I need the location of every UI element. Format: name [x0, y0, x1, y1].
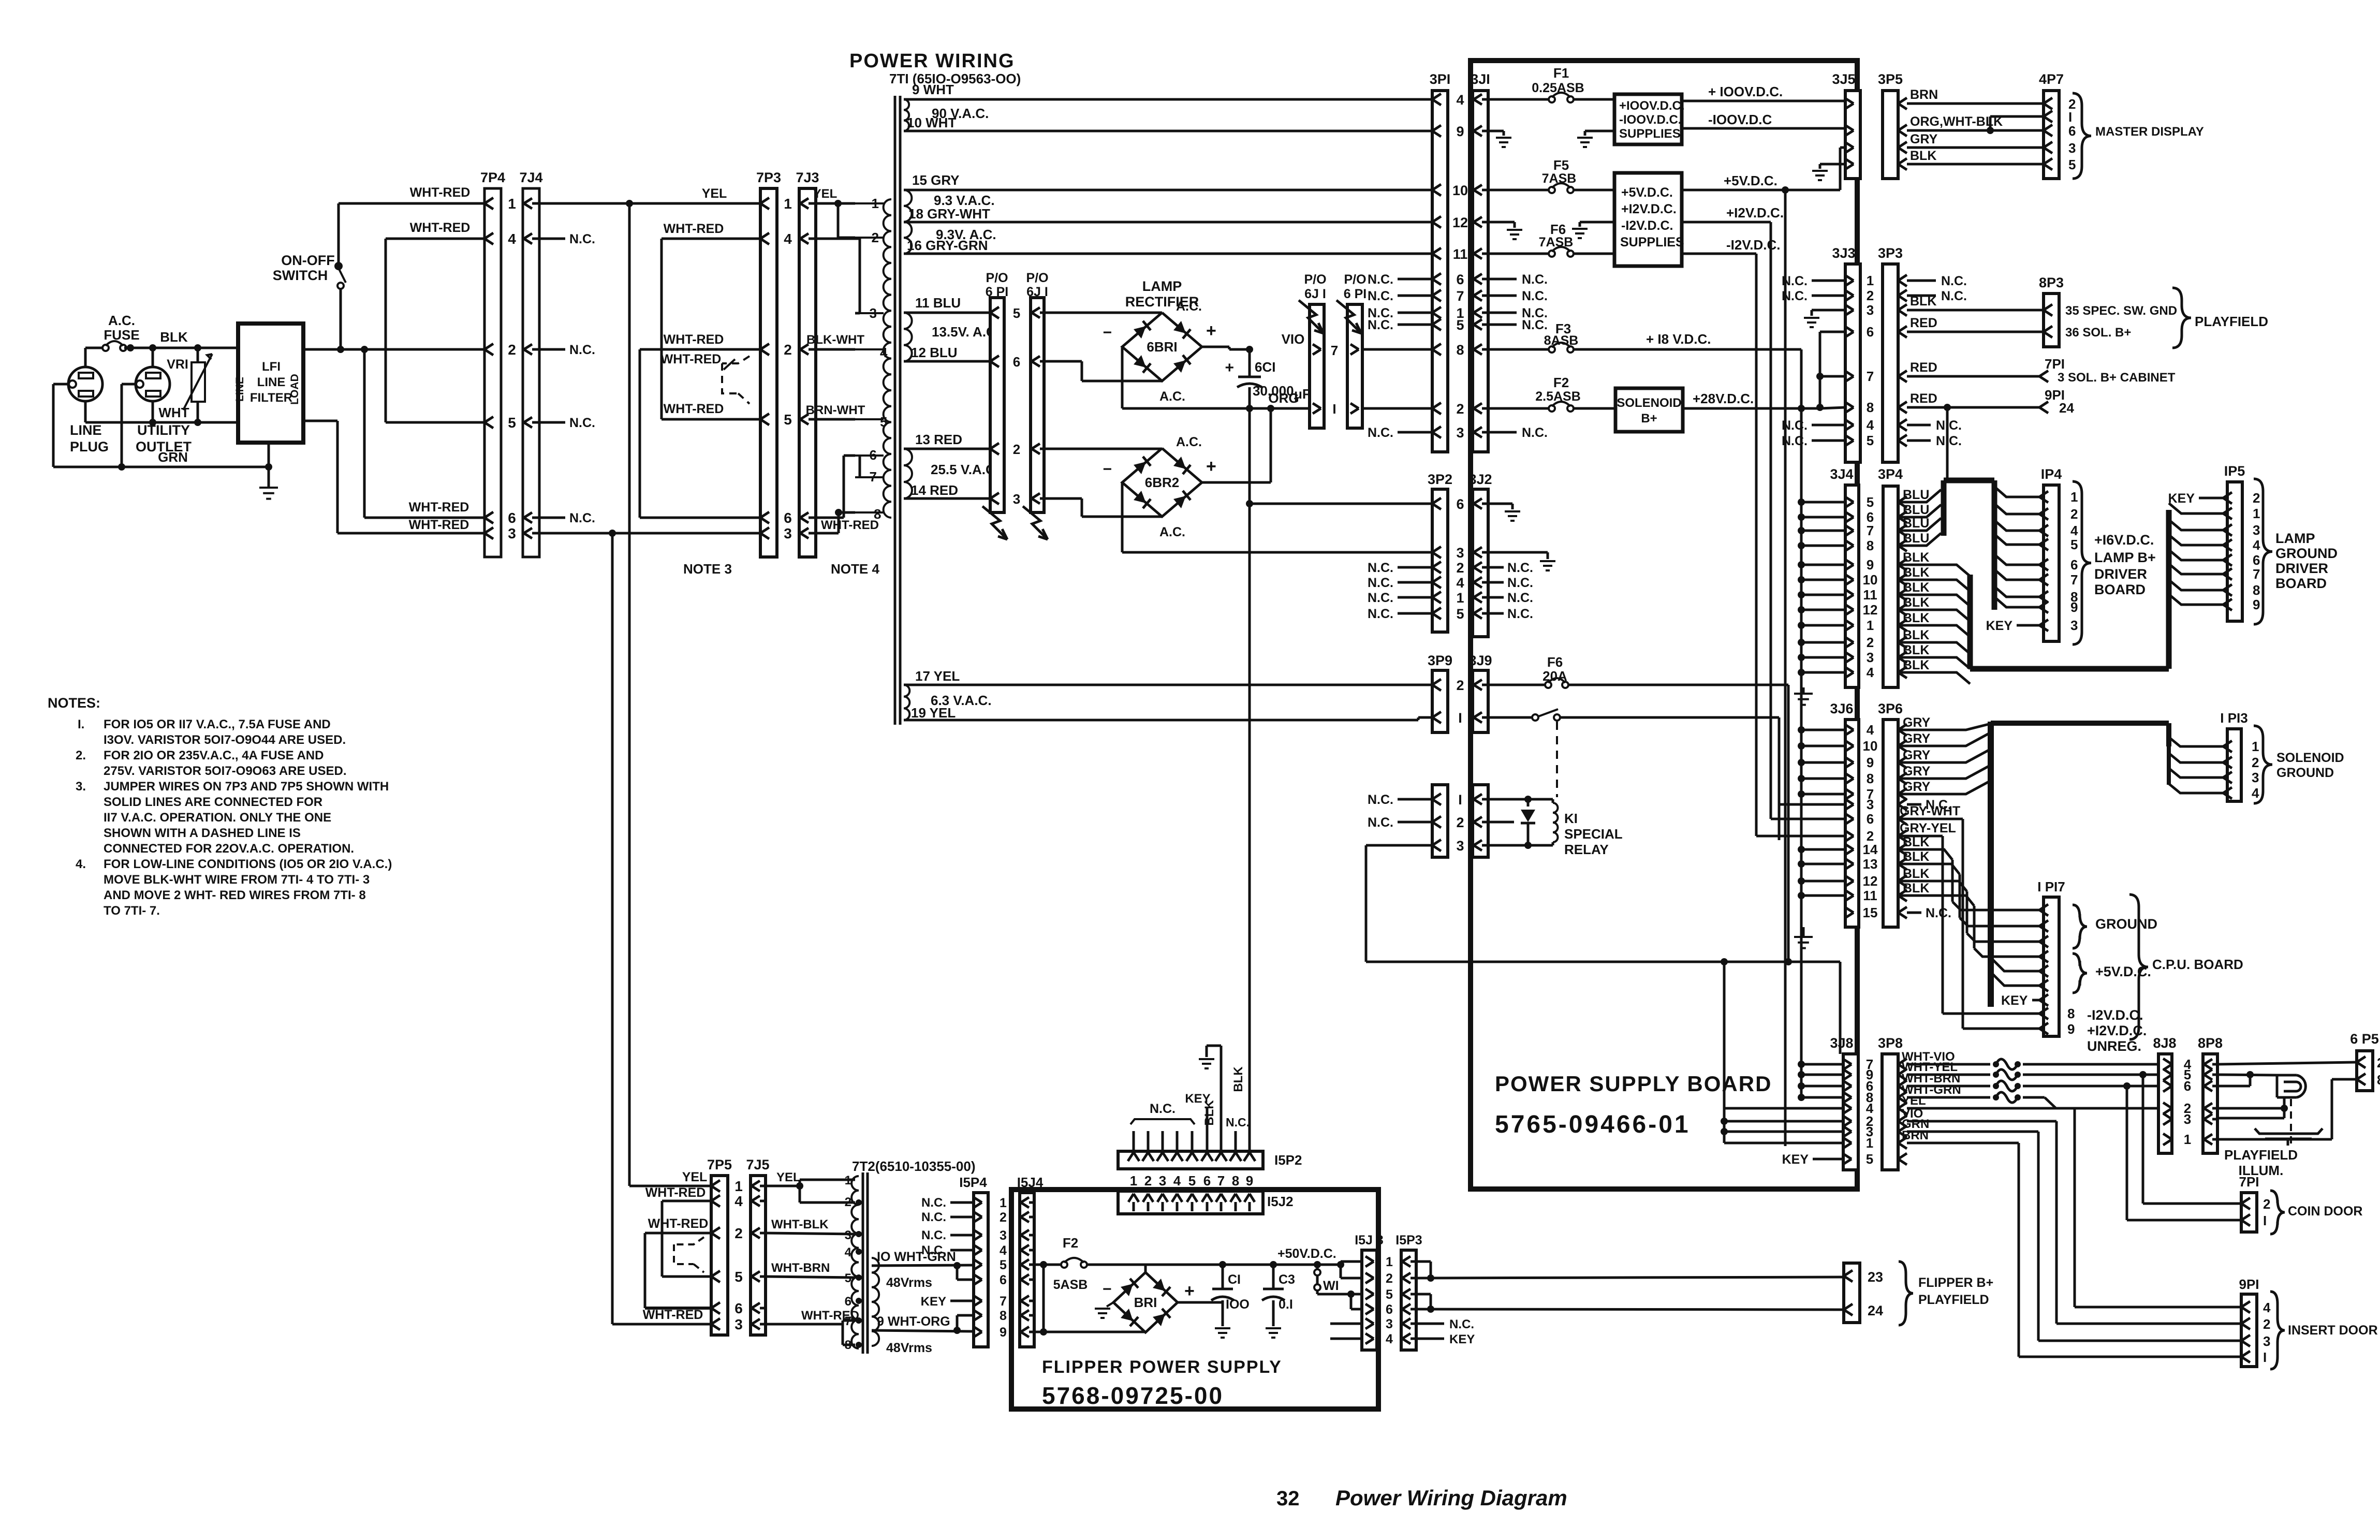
svg-text:WHT-RED: WHT-RED — [661, 352, 722, 366]
svg-text:4: 4 — [734, 1193, 743, 1209]
svg-text:2: 2 — [2377, 1055, 2380, 1070]
connector 15P3 — [1401, 1250, 1416, 1350]
label 10 WHT-GRN / 48Vrms — [877, 1250, 956, 1290]
svg-text:WHT-RED: WHT-RED — [664, 332, 724, 347]
svg-text:4: 4 — [2070, 523, 2078, 538]
svg-text:1: 1 — [2070, 489, 2078, 505]
svg-text:LAMP: LAMP — [2275, 531, 2315, 546]
svg-text:7: 7 — [1867, 523, 1874, 538]
pin numbers 23/24 — [1868, 1269, 1883, 1318]
svg-text:3: 3 — [1159, 1173, 1166, 1189]
brace coin door — [2270, 1191, 2285, 1234]
svg-text:−: − — [1103, 1281, 1112, 1298]
label BLK — [160, 329, 188, 345]
ground 3J1-9 — [1496, 138, 1511, 147]
ground 3J5-1 — [1812, 171, 1828, 180]
label 14 RED — [911, 482, 958, 498]
wire LOAD bottom to 7P4-3 — [303, 421, 484, 533]
svg-text:3: 3 — [1867, 797, 1874, 812]
wire 14 RED to 6P1-3 — [904, 497, 990, 500]
svg-text:11: 11 — [1863, 587, 1877, 603]
svg-text:7: 7 — [1217, 1173, 1225, 1189]
label YEL 7J5 — [776, 1170, 801, 1184]
svg-text:I: I — [1458, 792, 1462, 808]
svg-text:3: 3 — [2253, 522, 2260, 538]
label YEL 7P5 — [682, 1170, 708, 1184]
svg-text:IP5: IP5 — [2224, 463, 2245, 479]
svg-text:3: 3 — [2252, 770, 2259, 785]
svg-text:KEY: KEY — [1986, 619, 2013, 633]
svg-text:5768-09725-00: 5768-09725-00 — [1042, 1382, 1224, 1409]
wire +28 vertical — [1816, 332, 1824, 411]
svg-text:2: 2 — [872, 230, 879, 245]
svg-text:AND MOVE 2 WHT- RED WIRES: AND MOVE 2 WHT- RED WIRES FROM 7TI- 8 — [104, 888, 366, 902]
svg-text:8: 8 — [845, 1338, 851, 1352]
wire 7J4-5 N.C. — [539, 416, 595, 430]
svg-text:9: 9 — [2067, 1021, 2075, 1037]
svg-text:FUSE: FUSE — [104, 327, 139, 343]
svg-text:I: I — [2263, 1350, 2267, 1365]
svg-text:8P8: 8P8 — [2198, 1035, 2223, 1051]
svg-text:FILTER: FILTER — [250, 391, 292, 405]
wire 15J3-3 stub — [1330, 1323, 1362, 1325]
wire -100V.D.C. output — [1682, 127, 1845, 130]
svg-text:JUMPER WIRES ON 7P3 AND 7P: JUMPER WIRES ON 7P3 AND 7P5 SHOWN WITH — [104, 780, 389, 794]
svg-text:24: 24 — [1868, 1303, 1883, 1318]
break symbol 6J1 — [1023, 506, 1048, 539]
wire 15J3-4 stub — [1330, 1338, 1362, 1340]
svg-text:BLK: BLK — [1903, 628, 1929, 642]
label 36 SOL. B+ — [2065, 326, 2131, 340]
svg-text:1: 1 — [1456, 590, 1464, 606]
svg-text:2: 2 — [2263, 1196, 2270, 1212]
label 7J5 — [746, 1157, 769, 1172]
wire 7J3-6 to tap6 — [816, 456, 855, 518]
connector 8P3 — [2044, 294, 2059, 347]
connector 3J9 lower — [1473, 785, 1488, 857]
capacitor C1 flipper — [1211, 1265, 1234, 1326]
label 15J4 — [1017, 1175, 1044, 1190]
svg-text:A.C.: A.C. — [1176, 435, 1202, 449]
label 3P2 — [1428, 472, 1452, 487]
svg-text:SOLENOID: SOLENOID — [1617, 396, 1681, 410]
label 15P3 — [1395, 1233, 1422, 1248]
wire 8P8-4 to 6P5-2 — [2217, 1062, 2357, 1064]
svg-text:16 GRY-GRN: 16 GRY-GRN — [907, 238, 988, 253]
pin numbers 15J3/15P3 — [1386, 1255, 1393, 1346]
svg-text:1: 1 — [1867, 618, 1874, 633]
wire 6J1-5 to 6BR1 AC top — [1044, 312, 1162, 314]
label MASTER DISPLAY — [2095, 125, 2204, 139]
svg-text:N.C.: N.C. — [1507, 607, 1533, 621]
svg-text:+: + — [1206, 321, 1216, 341]
wire 3J2-5 N.C. stub — [1488, 607, 1533, 621]
label GRY-WHT — [1900, 804, 1960, 818]
label C3 0.1 — [1279, 1272, 1295, 1312]
svg-text:+IOOV.D.C.: +IOOV.D.C. — [1619, 99, 1685, 113]
wire 3J3-1 N.C. — [1782, 274, 1845, 288]
pin numbers 7P5/7J5 — [734, 1178, 743, 1332]
wire 8P8-1 to 6P5-8 — [2217, 1079, 2357, 1139]
svg-text:12 BLU: 12 BLU — [911, 345, 958, 360]
connector 3J4 — [1845, 485, 1859, 687]
svg-text:18 GRY-WHT: 18 GRY-WHT — [908, 206, 990, 222]
label WHT-BLK — [771, 1218, 829, 1231]
wire 3P3-2 N.C. stub — [1907, 289, 1967, 303]
svg-text:3P2: 3P2 — [1428, 472, 1452, 487]
label A.C. FUSE — [104, 313, 139, 343]
svg-text:4: 4 — [2263, 1300, 2271, 1315]
wire YEL to 9P1-4 — [1907, 1108, 2241, 1307]
svg-text:KEY: KEY — [1782, 1152, 1809, 1167]
svg-text:N.C.: N.C. — [1449, 1317, 1474, 1331]
svg-text:6: 6 — [1867, 324, 1874, 340]
wire GRN to 9P1-3 — [1907, 1132, 2241, 1341]
note 3 — [76, 780, 389, 856]
wire 19 YEL to 3P9-1 — [904, 717, 1432, 720]
wire +50V node to 15J3 — [1223, 1261, 1362, 1278]
wire 7P4-4/5 jumper — [386, 239, 484, 422]
svg-text:POWER WIRING: POWER WIRING — [849, 50, 1015, 72]
label 3J2 — [1468, 472, 1492, 487]
label +12V.D.C. — [1726, 205, 1784, 221]
svg-text:LOAD: LOAD — [289, 374, 301, 405]
svg-text:MASTER DISPLAY: MASTER DISPLAY — [2095, 125, 2204, 139]
svg-text:I.: I. — [78, 717, 84, 731]
svg-text:4: 4 — [1456, 92, 1464, 108]
svg-text:-IOOV.D.C: -IOOV.D.C — [1708, 112, 1772, 127]
label C1 100 — [1226, 1272, 1250, 1312]
node WHT-RED junction — [609, 530, 616, 537]
wire 3J2-6 ground — [1488, 504, 1520, 521]
wire 8P8-6 to lamp net — [2217, 1075, 2250, 1086]
brace 1P17 ground — [2073, 905, 2087, 948]
svg-text:F6: F6 — [1547, 654, 1563, 670]
svg-text:P/O: P/O — [1026, 271, 1048, 285]
svg-text:TO 7TI- 7.: TO 7TI- 7. — [104, 904, 160, 918]
connector 3P2 — [1432, 489, 1448, 632]
svg-text:N.C.: N.C. — [1368, 318, 1393, 332]
svg-text:7: 7 — [2253, 566, 2260, 582]
label 6P5 — [2350, 1031, 2379, 1047]
wire 3J8 feeds mid — [1721, 1108, 1843, 1143]
note 2 — [76, 749, 347, 778]
pin numbers 3J3/3P3 — [1867, 273, 1874, 448]
svg-text:9: 9 — [1000, 1325, 1007, 1340]
svg-text:1: 1 — [734, 1178, 743, 1194]
wire 3J1-10 to F5 to +5 supply — [1488, 189, 1614, 192]
svg-text:7J3: 7J3 — [796, 170, 819, 185]
svg-text:−: − — [1103, 324, 1112, 341]
wire 3J2-4 N.C. stub — [1488, 576, 1533, 590]
wire 1P13 feeds — [2169, 737, 2223, 793]
label BLK-WHT 4 — [806, 333, 888, 360]
svg-text:4: 4 — [2252, 785, 2259, 801]
svg-text:2: 2 — [2070, 506, 2078, 522]
svg-text:PLAYFIELD: PLAYFIELD — [2195, 314, 2268, 329]
wire 3J1-12 ground stub — [1488, 222, 1515, 228]
svg-text:DRIVER: DRIVER — [2275, 561, 2328, 576]
wire BLK-WHT 7J3-2 to tap4 — [816, 348, 855, 351]
svg-text:NOTES:: NOTES: — [48, 695, 100, 711]
node WHT junction dots — [149, 419, 201, 426]
svg-text:15: 15 — [1863, 905, 1878, 920]
wire switch to 7P4-1 — [339, 203, 484, 263]
svg-text:13 RED: 13 RED — [915, 432, 962, 447]
fuse F1 0.25ASB — [1532, 65, 1584, 102]
svg-text:GRY: GRY — [1903, 764, 1931, 779]
wire 3J3-3 ground — [1804, 310, 1845, 327]
svg-text:YEL: YEL — [682, 1170, 708, 1184]
wire 7J4-6 N.C. — [539, 511, 595, 525]
wire LFI ground lead — [268, 443, 270, 487]
wire BLK bundle — [1898, 565, 1970, 684]
label 4P7 — [2039, 71, 2064, 87]
label 15 GRY / 9.3V.A.C. — [912, 172, 995, 208]
wire 3P2-4 N.C. stub — [1368, 576, 1432, 590]
svg-text:−: − — [1103, 461, 1112, 478]
wire 3J3-2 N.C. — [1782, 289, 1845, 303]
pin numbers 6P1/6J1 — [1013, 305, 1020, 507]
svg-text:KI: KI — [1564, 811, 1578, 826]
svg-text:3: 3 — [508, 525, 516, 541]
svg-text:BLK: BLK — [1910, 294, 1936, 309]
svg-text:BLU: BLU — [1903, 503, 1929, 517]
wire 15J4-5 row with F2 — [1034, 1261, 1223, 1268]
wire 7J4-2 N.C. — [539, 343, 595, 357]
labels BLK 3P6 — [1903, 835, 1929, 896]
label 13 RED / 25.5V.A.C. — [915, 432, 999, 477]
label INSERT DOOR — [2288, 1323, 2378, 1338]
svg-text:3: 3 — [1456, 425, 1464, 441]
wire 15P3-3 N.C. — [1416, 1317, 1474, 1331]
svg-text:12: 12 — [1863, 873, 1878, 889]
svg-text:WHT-RED: WHT-RED — [410, 185, 471, 200]
svg-text:WHT-RED: WHT-RED — [409, 500, 469, 515]
label 15P4 — [959, 1175, 987, 1190]
brace flipper B+ — [1899, 1262, 1913, 1325]
switch relay contact K1 — [1488, 709, 1560, 721]
wire WHT-BRN branch to 7P1-1 — [2127, 1086, 2241, 1220]
svg-text:A.C.: A.C. — [108, 313, 135, 328]
label WHT-RED 7P4-3 — [409, 518, 469, 532]
jumper 7P5 pins 2-6 — [645, 1233, 711, 1308]
svg-text:7P4: 7P4 — [480, 170, 505, 185]
label WHT-RED 8 — [821, 506, 881, 532]
wire utility outlet verticals — [152, 348, 154, 422]
wire dashed relay link — [1556, 722, 1558, 797]
label 18 GRY-WHT / 9.3V.A.C. — [908, 206, 996, 242]
svg-text:2: 2 — [1867, 288, 1874, 303]
connector 1P13 — [2223, 729, 2241, 801]
bus GRY thick — [1991, 722, 2169, 1007]
svg-text:3: 3 — [734, 1316, 743, 1332]
svg-text:4P7: 4P7 — [2039, 71, 2064, 87]
svg-text:FLIPPER B+: FLIPPER B+ — [1918, 1275, 1993, 1290]
node W1 top — [1314, 1261, 1321, 1268]
wire 12 BLU to 6P1-6 — [904, 360, 990, 363]
brace playfield — [2172, 288, 2191, 348]
svg-text:11: 11 — [1453, 246, 1468, 262]
connector 7J5 — [751, 1176, 766, 1335]
svg-text:N.C.: N.C. — [1936, 434, 1962, 448]
svg-text:4: 4 — [508, 231, 516, 247]
connector 15J2 — [1118, 1191, 1263, 1214]
ground 3J6 bus — [1794, 927, 1813, 948]
svg-text:MOVE BLK-WHT WIRE FROM 7T: MOVE BLK-WHT WIRE FROM 7TI- 4 TO 7TI- 3 — [104, 873, 370, 887]
box +5/+12/-12 SUPPLIES — [1614, 173, 1682, 266]
label BRN — [1910, 87, 1938, 102]
svg-text:N.C.: N.C. — [921, 1243, 946, 1257]
wire 3P1-3 N.C. stub — [1368, 426, 1432, 440]
label BLK vertical 15P2-9 — [1231, 1066, 1245, 1092]
box +100/-100 SUPPLIES — [1614, 94, 1682, 144]
svg-text:7PI: 7PI — [2045, 356, 2065, 372]
svg-text:GRN: GRN — [158, 449, 188, 465]
wire 3J1-5 N.C. stub — [1488, 318, 1548, 332]
label BLK vertical 15P2-7 — [1202, 1100, 1216, 1126]
wire 7J4-4 N.C. — [539, 232, 595, 246]
pin numbers 1P13 — [2252, 739, 2259, 801]
svg-text:N.C.: N.C. — [1368, 576, 1393, 590]
svg-text:I: I — [2263, 1213, 2267, 1228]
svg-text:7: 7 — [845, 1314, 851, 1328]
label 9P1 insert door — [2239, 1277, 2259, 1292]
svg-text:12: 12 — [1452, 215, 1468, 230]
label +5V.D.C. — [2095, 964, 2151, 979]
wire WHT-BLK 7J5-2 to tap3 — [766, 1233, 855, 1234]
svg-text:3: 3 — [845, 1228, 851, 1242]
wire 3P2-5 N.C. stub — [1368, 607, 1432, 621]
relay coil K1 — [1553, 799, 1558, 845]
svg-text:48Vrms: 48Vrms — [886, 1275, 932, 1290]
svg-text:F1: F1 — [1553, 65, 1569, 81]
svg-text:6: 6 — [734, 1300, 743, 1316]
wire W1 to 15J3-5/6 — [1317, 1290, 1362, 1309]
wire +5 to 3J5-6 — [1840, 148, 1845, 190]
ground LFI earth — [259, 488, 278, 499]
label 6BR2 AC top — [1176, 435, 1202, 449]
wire 3J5-1 ground stub — [1820, 164, 1845, 169]
svg-text:SWITCH: SWITCH — [273, 268, 328, 283]
label WHT-RED 7P5-4 — [645, 1185, 706, 1200]
bridge rectifier BR1 flipper — [1113, 1272, 1178, 1332]
wire 6BR1 minus to ORG node — [1122, 348, 1250, 408]
svg-text:N.C.: N.C. — [1941, 289, 1967, 303]
svg-text:1: 1 — [872, 196, 879, 211]
svg-text:2: 2 — [508, 342, 516, 358]
wire 3P1-1 N.C. stub — [1368, 306, 1432, 320]
svg-text:N.C.: N.C. — [1522, 426, 1548, 440]
svg-text:+50V.D.C.: +50V.D.C. — [1277, 1246, 1336, 1261]
svg-text:2: 2 — [734, 1225, 743, 1241]
svg-text:I5P4: I5P4 — [959, 1175, 987, 1190]
jumper 7P5 dashed 2-5 — [674, 1237, 704, 1272]
svg-text:+: + — [1225, 359, 1234, 376]
note 4 — [76, 857, 392, 918]
wire 3J8 feeds top — [1798, 1061, 1843, 1101]
svg-text:5: 5 — [734, 1269, 743, 1285]
connector P/O 6P1 (lamp) — [990, 298, 1004, 512]
svg-text:2: 2 — [1386, 1271, 1393, 1286]
svg-text:I: I — [1458, 710, 1462, 726]
svg-text:7P3: 7P3 — [756, 170, 781, 185]
label 1P5 — [2224, 463, 2245, 479]
svg-text:6: 6 — [508, 510, 516, 526]
svg-text:N.C.: N.C. — [1522, 289, 1548, 303]
svg-text:7: 7 — [1867, 369, 1874, 384]
svg-text:6BR2: 6BR2 — [1145, 475, 1179, 490]
svg-text:LINE: LINE — [257, 375, 286, 389]
svg-text:LAMP B+: LAMP B+ — [2094, 550, 2156, 565]
svg-text:3: 3 — [784, 525, 792, 541]
wire 9 WHT-ORG 48V — [872, 1330, 974, 1331]
wire -100 box stub — [1585, 130, 1614, 133]
wire WHT-RED long vertical to 7P5-3 — [612, 533, 711, 1324]
svg-text:3 SOL. B+ CABINET: 3 SOL. B+ CABINET — [2058, 371, 2176, 385]
jumper 7P3 pins 2-6 — [640, 349, 760, 518]
svg-text:+I2V.D.C.: +I2V.D.C. — [1621, 202, 1677, 216]
pin numbers 7P1 — [2263, 1196, 2270, 1228]
svg-text:GRY: GRY — [1903, 748, 1931, 762]
label WHT-RED 7P3-2b — [661, 352, 735, 370]
wire -12 to 3J6-2 — [1756, 254, 1845, 836]
label +100/-100 SUPPLIES — [1619, 99, 1685, 141]
pin numbers 3J8/3P8 — [1866, 1057, 1874, 1167]
label +50V.D.C. — [1277, 1246, 1336, 1261]
wire lamp return to 8P8-3 — [2217, 1108, 2284, 1118]
label SOLENOID B+ — [1617, 396, 1681, 426]
label NOTES heading — [48, 695, 100, 711]
labels BLK 3P4 — [1903, 550, 1929, 672]
label 19 YEL — [911, 705, 956, 721]
svg-text:2: 2 — [1867, 635, 1874, 650]
svg-text:32: 32 — [1276, 1487, 1300, 1510]
svg-text:1: 1 — [2184, 1132, 2191, 1147]
transformer 7T2 core — [863, 1172, 868, 1354]
svg-text:1: 1 — [784, 196, 792, 212]
label WHT-RED 7P5-3 — [643, 1308, 703, 1322]
label K1 SPECIAL RELAY — [1564, 811, 1623, 857]
connector 3P4 — [1883, 486, 1907, 687]
label 6BR2 plus — [1206, 457, 1216, 476]
label 5768-09725-00 — [1042, 1382, 1224, 1409]
wire BLK vertical (ORG node to 15P2-9) — [1248, 408, 1251, 1151]
svg-text:275V. VARISTOR 5OI7-O9O63: 275V. VARISTOR 5OI7-O9O63 ARE USED. — [104, 764, 347, 778]
label RED 3P3-7 — [1910, 360, 1937, 375]
svg-text:BRN: BRN — [1910, 87, 1938, 102]
svg-text:2: 2 — [1456, 401, 1464, 417]
svg-text:CI: CI — [1228, 1272, 1241, 1287]
wire WHT-RED 7J3-3 to taps 7/8 — [816, 509, 855, 533]
svg-text:3P9: 3P9 — [1428, 653, 1452, 668]
svg-text:6 PI: 6 PI — [1344, 287, 1367, 301]
svg-text:3: 3 — [1456, 545, 1464, 561]
capacitor C3 flipper — [1262, 1265, 1285, 1326]
svg-text:9: 9 — [2070, 599, 2078, 615]
svg-text:N.C.: N.C. — [569, 416, 595, 430]
jumper 7P5 pins 4-5 — [662, 1201, 711, 1277]
wire 3P1-7 N.C. stub — [1368, 289, 1432, 303]
wire BLK to 4P7-5 — [1907, 163, 2044, 166]
label 3P5 — [1878, 71, 1903, 87]
svg-text:5: 5 — [2070, 537, 2078, 552]
svg-text:17 YEL: 17 YEL — [915, 668, 960, 684]
svg-text:N.C.: N.C. — [1782, 434, 1808, 448]
svg-text:IP4: IP4 — [2041, 466, 2062, 482]
svg-text:6: 6 — [784, 510, 792, 526]
svg-text:INSERT DOOR: INSERT DOOR — [2288, 1323, 2378, 1338]
